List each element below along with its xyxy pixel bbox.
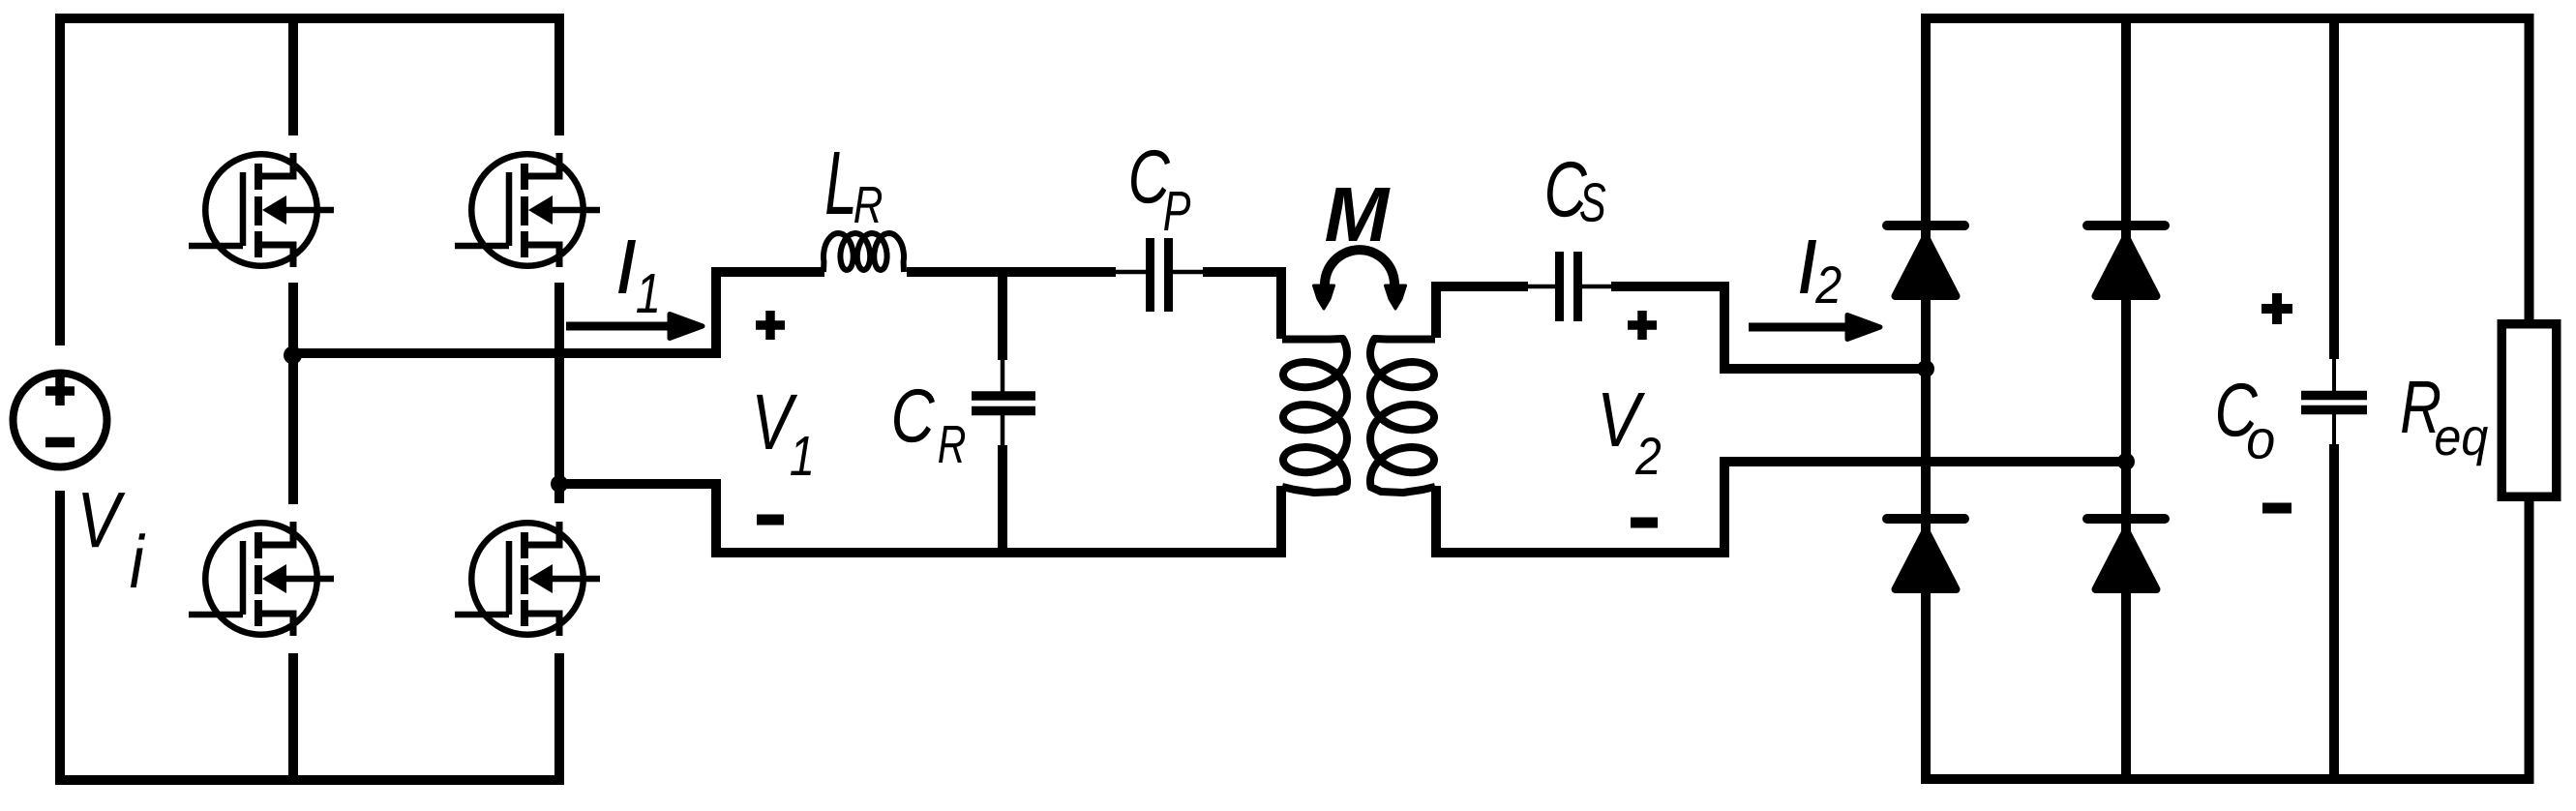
label CR [894,389,965,463]
node: rectifier right leg junction [2117,453,2135,470]
label Vi [82,493,145,587]
capacitor CP [1114,238,1205,312]
inductor LR [824,233,904,272]
wire: CS to rectifier top [1611,286,1926,369]
label Co [2218,383,2274,459]
wire: top rail CP to transformer [1203,272,1281,339]
diode D3 [1887,519,1964,589]
transistor Q1 (MOSFET) [189,153,334,267]
capacitor CS [1526,252,1612,321]
wire: left block outer frame top [60,18,559,345]
transistor Q3 (MOSFET) [189,522,334,636]
node: right leg midpoint junction [551,475,568,493]
wire: rectifier right leg [2121,18,2131,779]
wire: bridge output bottom (V1 -) [559,484,1281,553]
transformer primary winding [1282,339,1347,493]
node: rectifier left leg junction [1917,360,1934,377]
label V1 [757,395,811,475]
resistor Req [2501,324,2557,497]
minus Co [2262,503,2291,514]
diode D2 [2087,225,2165,296]
mutual coupling arc M [1314,250,1406,309]
label CP [1131,150,1190,230]
label Req [2402,381,2488,466]
label I2 [1800,240,1841,303]
transformer secondary winding [1370,339,1435,493]
plus V2 [1628,311,1657,340]
node: left leg midpoint junction [284,346,302,365]
minus V1 [757,515,784,526]
wire: top rail between LR and CP [907,267,1116,277]
wire: secondary top (V2 +) [1436,286,1528,338]
wire: left leg bottom segment [288,653,298,780]
capacitor Co [2301,18,2367,779]
label LR [826,152,882,223]
wire: bridge output top (V1 +) [293,272,824,353]
wire: left leg middle segment [288,283,298,504]
wire: right leg middle segment [554,283,564,503]
capacitor CR [972,272,1035,553]
minus V2 [1631,518,1658,528]
wire: left leg top stub [288,18,298,135]
arrow I1 [566,315,703,339]
wire: secondary bottom (V2 -) [1436,462,2126,553]
plus Co [2261,293,2292,324]
diode D4 [2087,519,2165,589]
label M [1326,188,1391,241]
label I1 [618,240,657,313]
transistor Q4 (MOSFET) [455,522,600,636]
voltage source Vi [14,374,107,467]
wire: rectifier outer frame [1926,18,2530,779]
diode D1 [1887,225,1964,296]
plus V1 [756,311,785,340]
wire: left block outer frame bottom [60,491,559,780]
label V2 [1603,393,1661,474]
transistor Q2 (MOSFET) [455,153,600,267]
label CS [1547,162,1605,222]
arrow I2 [1749,315,1880,340]
